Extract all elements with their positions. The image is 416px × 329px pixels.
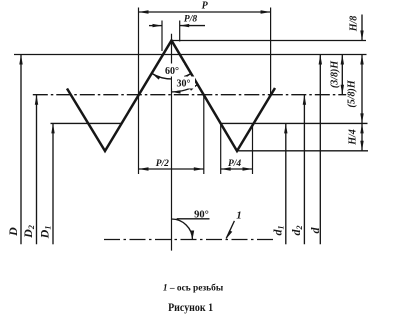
thread axis (dash-dot)	[104, 239, 274, 241]
svg-text:90°: 90°	[194, 210, 209, 221]
left dimension line D	[20, 55, 22, 245]
label 30deg	[172, 77, 195, 90]
svg-text:D2: D2	[21, 225, 36, 239]
svg-text:60°: 60°	[165, 66, 179, 77]
dimension H/4	[361, 123, 363, 150]
svg-text:d1: d1	[270, 226, 285, 236]
dimension P: right extension line	[270, 8, 272, 95]
left dimension line D1	[52, 123, 54, 244]
dimension P: left extension line (shared with P/2)	[138, 8, 140, 175]
dimension P/8: dimension line with outside arrows	[149, 25, 162, 27]
svg-text:H/4: H/4	[348, 129, 359, 146]
svg-text:P/2: P/2	[156, 159, 169, 169]
svg-text:D: D	[6, 227, 20, 237]
svg-text:P/8: P/8	[184, 15, 197, 25]
pitch diameter line D2,d2 (dash-dot)	[33, 94, 346, 96]
leader for axis callout 1	[226, 221, 234, 238]
dimension P/8: extension lines	[161, 21, 163, 52]
left dimension line D2	[36, 95, 38, 245]
dimension P/4: dimension line	[221, 168, 253, 170]
label 60deg	[160, 64, 184, 78]
svg-text:30°: 30°	[177, 79, 191, 90]
dimension (3/8)H line	[341, 55, 343, 95]
60 degree angle arc	[152, 74, 191, 79]
thread profile outline	[67, 41, 275, 152]
svg-text:P/4: P/4	[228, 159, 241, 169]
minor diameter line D1 (left segment)	[51, 122, 122, 124]
30 degree angle arc	[172, 85, 198, 92]
dimension H/8 (outside arrows) + (5/8)H + H/4 chain line	[361, 15, 363, 41]
right dimension line d2	[303, 95, 305, 245]
svg-text:d: d	[308, 227, 322, 234]
90 degree leader underline	[177, 218, 210, 220]
major diameter line D,d	[14, 54, 367, 56]
dimension P/2: right extension line	[203, 95, 205, 174]
svg-text:D1: D1	[38, 226, 53, 240]
tooth center line	[171, 34, 173, 251]
90 degree angle arc with arrow	[172, 219, 193, 240]
svg-text:1 – ось резьбы: 1 – ось резьбы	[163, 283, 224, 294]
svg-text:(3/8)H: (3/8)H	[330, 60, 341, 88]
svg-text:(5/8)H: (5/8)H	[347, 79, 358, 107]
theoretical root line	[237, 150, 368, 152]
right dimension line d	[319, 55, 321, 245]
dimension P: arrowheads	[139, 10, 149, 13]
svg-text:d2: d2	[289, 226, 304, 236]
svg-text:P: P	[202, 1, 209, 12]
dimension P/4: extension lines	[220, 123, 222, 174]
dimension P/2: dimension line	[139, 168, 204, 170]
dimension (5/8)H	[361, 55, 363, 124]
right dimension line d1	[285, 123, 287, 244]
minor diameter line D1 (right segment)	[221, 122, 368, 124]
svg-text:1: 1	[236, 210, 242, 222]
svg-text:H/8: H/8	[349, 16, 360, 33]
apex line (line through theoretical crest)	[172, 40, 367, 42]
svg-text:Рисунок 1: Рисунок 1	[168, 302, 213, 314]
dimension P: dimension line	[139, 11, 271, 13]
